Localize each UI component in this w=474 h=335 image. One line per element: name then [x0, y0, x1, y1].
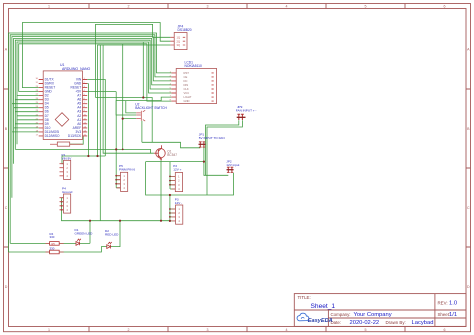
- wire ground bus: [62, 198, 170, 221]
- svg-text:12V -: 12V -: [175, 201, 182, 205]
- wire 5V to P5: [87, 91, 116, 93]
- wire bundle row 0: [9, 33, 172, 252]
- header JP9 FAN INPUT + -: [236, 105, 257, 120]
- EasyEDA logo: [297, 313, 333, 324]
- wire bundle to dot: [142, 42, 144, 98]
- svg-text:1Q: 1Q: [177, 35, 180, 39]
- svg-text:3Q: 3Q: [177, 43, 180, 47]
- wire JP9 left: [206, 120, 239, 175]
- transistor Q1 BC547: [154, 145, 177, 160]
- svg-text:DC: DC: [184, 79, 188, 83]
- svg-text:2Q: 2Q: [177, 39, 180, 43]
- svg-text:5: 5: [365, 5, 367, 9]
- wire pin stubs staircase: [12, 96, 39, 132]
- wire GND drop: [87, 84, 88, 157]
- wire long gnd drop: [99, 45, 101, 221]
- wire 12V node: [146, 162, 204, 189]
- svg-text:NOKIA5110: NOKIA5110: [185, 64, 203, 68]
- wire JP4 gnd loop: [98, 45, 157, 156]
- wire R5 feed: [9, 251, 50, 253]
- wire P5 feed: [116, 92, 120, 188]
- svg-text:12V input: 12V input: [226, 163, 239, 167]
- wire bundle row 4: [15, 40, 171, 149]
- svg-text:REV:: REV:: [438, 301, 448, 306]
- svg-text:TITLE:: TITLE:: [298, 295, 311, 300]
- lcd LCD1: [170, 61, 217, 104]
- svg-text:1: 1: [48, 5, 50, 9]
- svg-text:DIN: DIN: [184, 83, 189, 87]
- svg-text:1: 1: [48, 328, 50, 332]
- svg-text:EasyEDA: EasyEDA: [308, 318, 333, 324]
- wire U2 net B light: [116, 97, 171, 115]
- svg-text:5V INPUT TO FAN: 5V INPUT TO FAN: [199, 136, 225, 140]
- svg-text:Company:: Company:: [331, 312, 351, 317]
- wire bundle row 6: [19, 44, 172, 101]
- svg-text:C: C: [467, 206, 470, 210]
- connector P5 PWM PIN 6: [117, 164, 136, 191]
- resistor R1: [50, 142, 83, 146]
- svg-text:PWM PIN 6: PWM PIN 6: [119, 168, 135, 172]
- header JP2 12V input: [226, 159, 239, 172]
- title block: [294, 294, 466, 327]
- svg-text:ARDUINO_NANO: ARDUINO_NANO: [62, 67, 90, 71]
- svg-text:3: 3: [207, 328, 209, 332]
- svg-text:FAN INPUT + -: FAN INPUT + -: [236, 109, 257, 113]
- svg-text:6: 6: [444, 5, 446, 9]
- svg-text:2: 2: [128, 5, 130, 9]
- arduino U1: [36, 63, 91, 140]
- wire U2 pin3: [123, 44, 137, 150]
- wire bundle row 5: [17, 42, 171, 144]
- wire 12V minus row: [146, 162, 234, 221]
- svg-text:6: 6: [444, 328, 446, 332]
- svg-text:BACKLIGHT SWITCH: BACKLIGHT SWITCH: [135, 106, 167, 110]
- svg-text:D: D: [467, 285, 470, 289]
- svg-text:3: 3: [207, 5, 209, 9]
- svg-text:CLK: CLK: [184, 87, 189, 91]
- svg-text:Sheet_1: Sheet_1: [311, 303, 336, 310]
- wire third drop: [103, 45, 150, 153]
- svg-text:RST: RST: [184, 71, 190, 75]
- wire P1 feed: [62, 156, 105, 164]
- svg-text:CE: CE: [184, 75, 188, 79]
- svg-text:4: 4: [286, 5, 288, 9]
- wire R4 feed: [10, 242, 49, 244]
- svg-text:D: D: [5, 285, 8, 289]
- svg-text:Lacybad: Lacybad: [412, 320, 434, 326]
- svg-text:12V +: 12V +: [173, 168, 181, 172]
- svg-text:C: C: [5, 206, 8, 210]
- svg-text:Ground: Ground: [62, 190, 73, 194]
- svg-text:D12/MISO: D12/MISO: [45, 134, 60, 138]
- svg-text:D13/SCK: D13/SCK: [68, 134, 82, 138]
- wire D2 row: [59, 221, 120, 252]
- wire emitter down: [160, 160, 162, 221]
- svg-text:R5: R5: [52, 242, 56, 246]
- svg-text:2020-02-22: 2020-02-22: [350, 320, 380, 326]
- connector JP4 DS18B20: [170, 24, 191, 49]
- connector P4 Ground: [60, 186, 73, 213]
- wire JP9 right: [207, 120, 242, 195]
- wire VIN drop: [87, 80, 105, 157]
- svg-text:1/1: 1/1: [449, 312, 457, 318]
- wire bundle row 3: [14, 38, 172, 163]
- junction dots: [61, 96, 205, 222]
- svg-text:LIGHT: LIGHT: [184, 95, 192, 99]
- wire base long: [15, 149, 154, 153]
- wire U2 net A: [96, 98, 201, 148]
- svg-text:BC547: BC547: [167, 153, 177, 157]
- svg-text:GND: GND: [184, 99, 190, 103]
- svg-text:Drawn By:: Drawn By:: [386, 320, 406, 325]
- resistor R4: [46, 232, 64, 246]
- connector P1 VIN 9V: [60, 153, 73, 179]
- led D1 GREEN LED: [75, 228, 94, 245]
- wire JP1 drop: [204, 147, 228, 175]
- svg-text:5: 5: [365, 328, 367, 332]
- svg-text:330: 330: [50, 235, 55, 239]
- wire R1 to D13: [70, 136, 84, 144]
- connector P3 12V -: [172, 197, 183, 224]
- led D2 RED LED: [105, 229, 119, 249]
- resistor R5: [46, 247, 64, 254]
- svg-text:RED LED: RED LED: [105, 233, 119, 237]
- svg-text:GREEN LED: GREEN LED: [75, 231, 94, 235]
- svg-text:2: 2: [128, 328, 130, 332]
- svg-text:DS18B20: DS18B20: [178, 28, 192, 32]
- svg-text:Your Company: Your Company: [354, 312, 392, 318]
- wire RESET top: [22, 23, 170, 88]
- svg-text:4: 4: [286, 328, 288, 332]
- switch U2: [135, 102, 167, 121]
- header JP1 5V INPUT TO FAN: [199, 133, 225, 148]
- wire D1 row: [59, 221, 90, 244]
- wire bundle row 2: [12, 37, 172, 198]
- svg-text:VCC: VCC: [184, 91, 190, 95]
- svg-text:1.0: 1.0: [449, 301, 457, 307]
- wire bundle row 1: [10, 35, 171, 244]
- connector P2 12V +: [171, 164, 182, 192]
- wire JP4 pin1: [96, 24, 171, 97]
